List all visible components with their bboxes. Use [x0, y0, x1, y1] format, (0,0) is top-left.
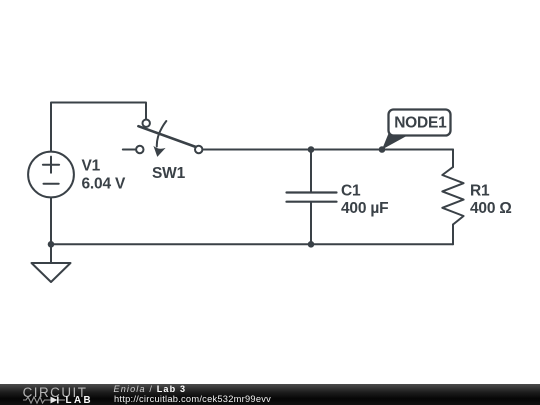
- capacitor C1: [287, 193, 337, 202]
- wire capacitor top lead: [310, 150, 312, 192]
- svg-text:V1: V1: [82, 158, 101, 175]
- svg-text:400 Ω: 400 Ω: [470, 200, 512, 217]
- footer logo CIRCUIT: [23, 385, 88, 400]
- wire V1 top to switch top terminal: [51, 103, 146, 153]
- svg-text:SW1: SW1: [152, 165, 186, 182]
- footer logo LAB: [66, 395, 94, 405]
- svg-text:R1: R1: [470, 182, 490, 199]
- node junction dot (ground): [48, 241, 55, 248]
- ground: [32, 263, 71, 282]
- node junction dot NODE1: [379, 146, 386, 153]
- svg-text:6.04 V: 6.04 V: [82, 175, 126, 192]
- wire ground lead: [50, 244, 52, 263]
- wire bottom rail: [51, 243, 453, 245]
- wire R1 top lead: [452, 150, 454, 168]
- svg-text:NODE1: NODE1: [394, 115, 447, 132]
- footer url: [114, 394, 271, 404]
- voltage source V1: [28, 152, 74, 198]
- node junction dot (C1 bottom): [308, 241, 315, 248]
- node NODE1 flag: [382, 110, 451, 150]
- wire switch common to R1 top: [202, 149, 453, 151]
- footer title Eniola / Lab 3: [114, 384, 187, 394]
- switch SW1: [136, 120, 202, 157]
- svg-text:C1: C1: [341, 182, 361, 199]
- resistor R1: [442, 167, 463, 225]
- wire V1 bottom: [50, 198, 52, 245]
- wire switch left throw stub: [123, 149, 137, 151]
- svg-text:400 µF: 400 µF: [341, 200, 388, 217]
- wire R1 bottom lead: [452, 225, 454, 245]
- wire capacitor bottom lead: [310, 203, 312, 245]
- node junction dot (C1 top): [308, 146, 315, 153]
- footer bar: [0, 384, 540, 405]
